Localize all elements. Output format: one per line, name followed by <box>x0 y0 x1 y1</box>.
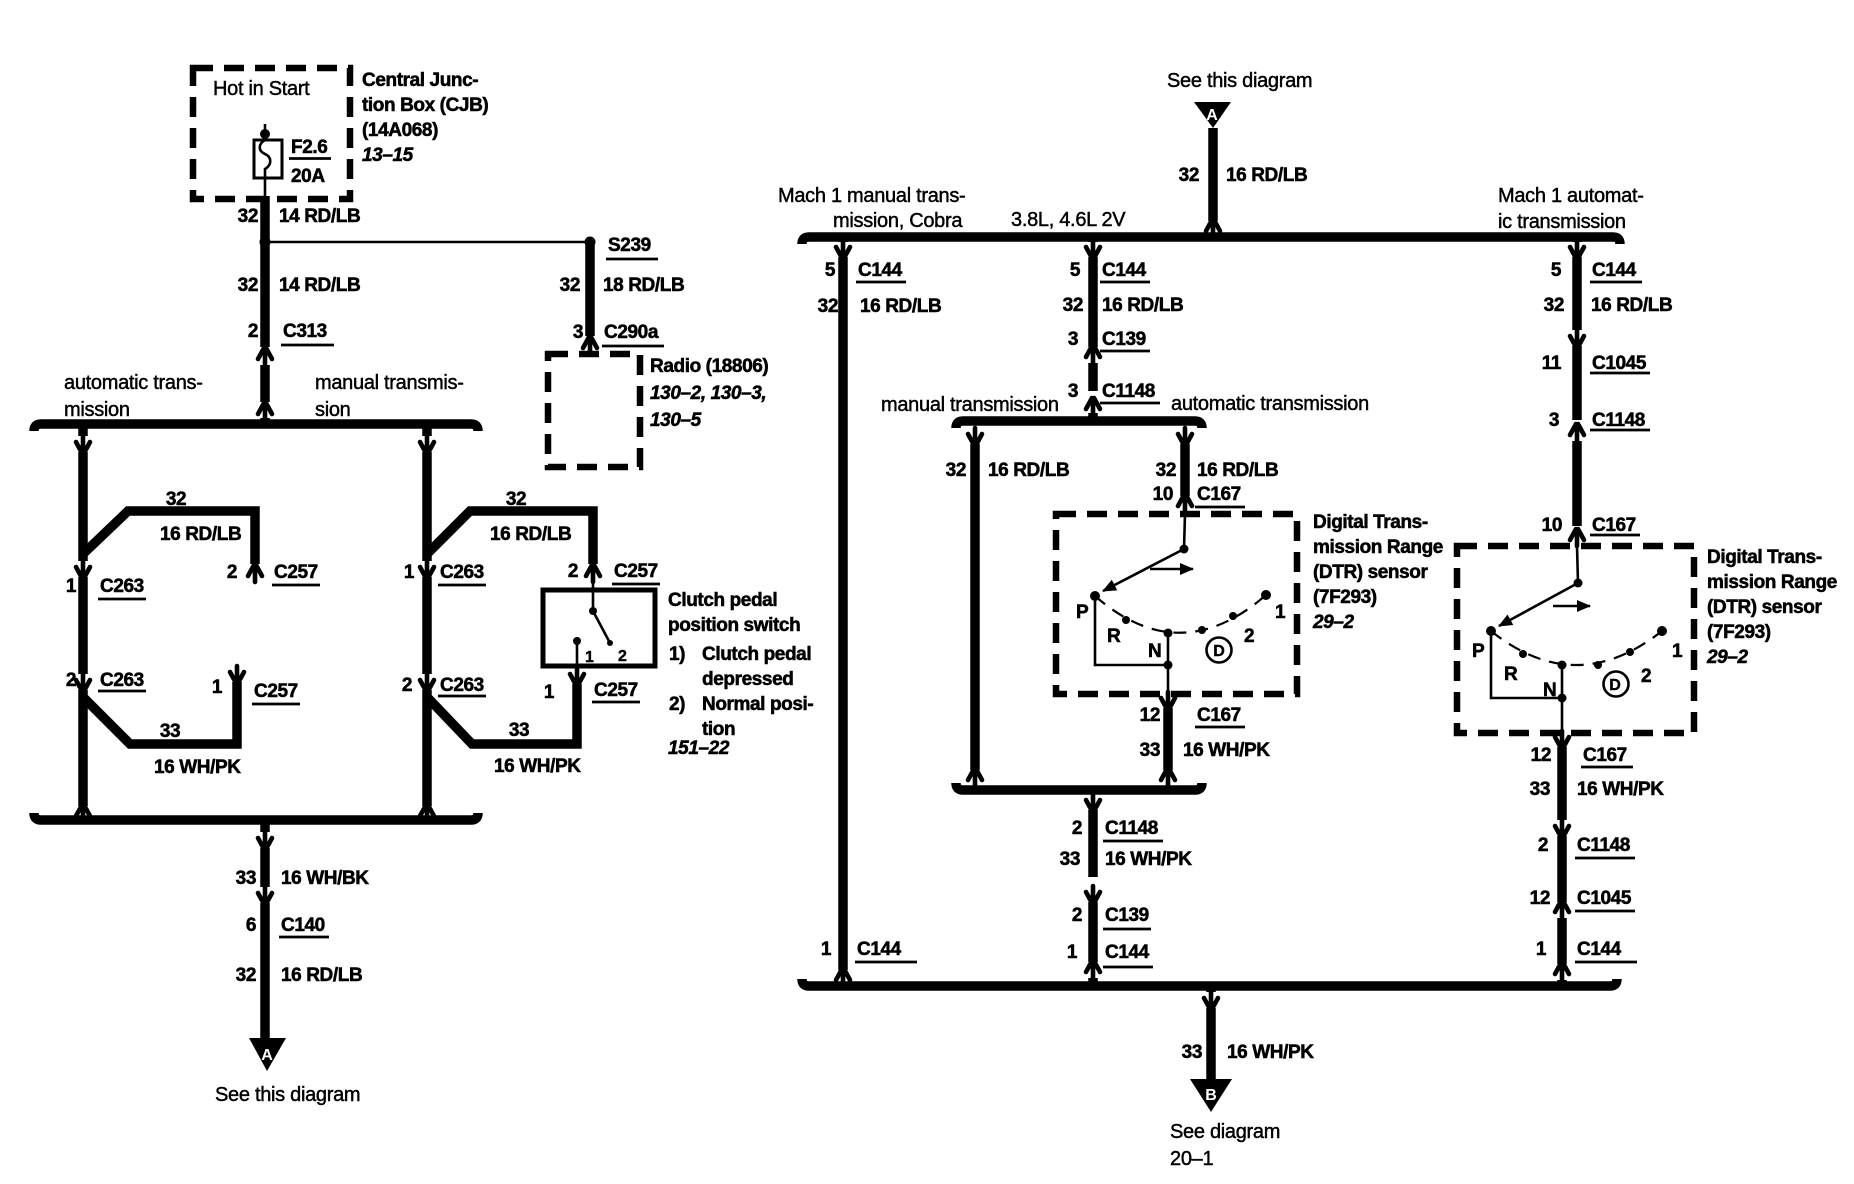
label 32 <box>818 296 838 317</box>
bus upper right <box>802 237 1620 244</box>
svg-text:P: P <box>1076 602 1089 623</box>
connector C257 label <box>252 681 300 704</box>
svg-text:33: 33 <box>1140 740 1160 761</box>
svg-text:P: P <box>1472 641 1485 662</box>
wire 33 16 WH/PK jog <box>84 682 237 744</box>
svg-text:Clutch pedal: Clutch pedal <box>668 590 777 611</box>
svg-text:1: 1 <box>1067 942 1078 963</box>
svg-text:3.8L, 4.6L 2V: 3.8L, 4.6L 2V <box>1011 209 1126 231</box>
svg-text:2: 2 <box>1072 905 1082 926</box>
svg-text:5: 5 <box>825 260 836 281</box>
sub bus lower <box>956 783 1202 790</box>
wire 33 16 WH/BK <box>260 848 270 887</box>
label 16 RD/LB <box>1226 165 1307 186</box>
label 32 <box>560 275 580 296</box>
connector C257 label <box>612 561 660 584</box>
clutch pedal position switch box <box>543 590 655 666</box>
connector <box>1161 769 1175 786</box>
connector 3 C139 <box>1086 346 1100 363</box>
connector C263 label <box>438 562 486 585</box>
wire <box>1557 918 1567 964</box>
pin 1 <box>1536 939 1547 960</box>
wire stub <box>1557 980 1567 986</box>
svg-text:C144: C144 <box>1102 260 1147 281</box>
svg-text:depressed: depressed <box>702 669 793 690</box>
label 16 RD/LB <box>1197 460 1278 481</box>
svg-text:A: A <box>1206 107 1218 124</box>
label Mach 1 manual transmission, Cobra <box>778 185 965 232</box>
wire 33 16 WH/PK <box>1206 1008 1216 1082</box>
svg-text:C139: C139 <box>1102 329 1146 350</box>
svg-text:C263: C263 <box>440 675 484 696</box>
label 32 <box>238 206 258 227</box>
svg-text:1: 1 <box>66 576 77 597</box>
label 16 RD/LB <box>160 524 241 545</box>
wire Mach 1 manual branch <box>838 257 848 970</box>
label 16 RD/LB <box>988 460 1069 481</box>
svg-text:16 RD/LB: 16 RD/LB <box>490 524 571 545</box>
wire 32 16 RD/LB jog <box>427 511 593 564</box>
pin 2 <box>1538 835 1548 856</box>
wire 32 16 RD/LB from arrow A <box>1208 128 1218 221</box>
label 14 RD/LB <box>279 206 360 227</box>
svg-text:2: 2 <box>1641 666 1651 687</box>
svg-text:2: 2 <box>618 648 627 665</box>
svg-text:R: R <box>1107 626 1121 647</box>
svg-text:32: 32 <box>946 460 966 481</box>
connector 1 C144 <box>1086 961 1100 978</box>
svg-text:Digital Trans-: Digital Trans- <box>1707 547 1822 568</box>
splice S239 dot <box>585 237 596 248</box>
svg-text:See diagram: See diagram <box>1170 1121 1280 1143</box>
svg-text:C144: C144 <box>858 260 903 281</box>
svg-text:C263: C263 <box>100 670 144 691</box>
pin 1 <box>544 682 555 703</box>
connector <box>968 428 982 445</box>
svg-text:1: 1 <box>585 649 594 666</box>
pin 3 <box>1068 381 1078 402</box>
bus lower left <box>34 813 478 820</box>
connector 2 C1148 <box>1555 820 1569 837</box>
svg-text:5: 5 <box>1070 260 1081 281</box>
svg-text:32: 32 <box>238 275 258 296</box>
bus lower right <box>802 979 1617 986</box>
label See diagram 20-1 <box>1170 1121 1280 1170</box>
svg-text:C257: C257 <box>254 681 298 702</box>
connector 5 C144 <box>1570 241 1584 258</box>
connector 10 C167 <box>1570 529 1584 546</box>
label S239 <box>606 235 658 259</box>
svg-text:C144: C144 <box>1105 942 1150 963</box>
svg-text:32: 32 <box>238 206 258 227</box>
connector C1045 label <box>1575 888 1635 911</box>
svg-text:10: 10 <box>1542 515 1562 536</box>
svg-text:2: 2 <box>248 321 258 342</box>
connector C1148 label <box>1590 410 1650 431</box>
svg-text:13–15: 13–15 <box>362 145 414 166</box>
svg-text:16 WH/PK: 16 WH/PK <box>1183 740 1270 761</box>
svg-text:manual transmis-: manual transmis- <box>315 372 464 394</box>
connector C144 label <box>1590 260 1642 282</box>
svg-text:33: 33 <box>236 868 256 889</box>
wire 32 14 RD/LB from fuse <box>260 196 270 347</box>
svg-text:ic transmission: ic transmission <box>1498 211 1626 233</box>
connector C313 <box>258 348 272 365</box>
label 33 <box>1140 740 1160 761</box>
svg-text:C167: C167 <box>1592 515 1636 536</box>
label Mach 1 automatic transmission <box>1498 185 1644 233</box>
label 33 <box>236 868 256 889</box>
off-page arrow A (left) <box>249 1038 286 1071</box>
wire <box>1572 346 1582 420</box>
svg-text:32: 32 <box>1156 460 1176 481</box>
connector C1148 label <box>1100 381 1160 403</box>
pin 1 <box>404 562 415 583</box>
svg-text:2: 2 <box>1538 835 1548 856</box>
svg-text:D: D <box>1609 677 1621 694</box>
sub bus upper <box>956 421 1202 428</box>
label 16 WH/PK <box>1105 849 1192 870</box>
svg-text:C167: C167 <box>1197 484 1241 505</box>
svg-text:Clutch pedal: Clutch pedal <box>702 644 811 665</box>
wire 32 16 RD/LB <box>260 903 270 1045</box>
label 32 <box>1179 165 1199 186</box>
svg-text:2): 2) <box>669 694 685 715</box>
label 32 <box>238 275 258 296</box>
switch contact 1 <box>573 637 581 668</box>
svg-text:D: D <box>1213 643 1225 660</box>
pin 2 <box>1072 818 1082 839</box>
wire below C313 <box>260 365 270 402</box>
pin 2 <box>227 562 237 583</box>
svg-text:Normal posi-: Normal posi- <box>702 694 813 715</box>
svg-text:16 WH/BK: 16 WH/BK <box>281 868 369 889</box>
connector 12 C1045 <box>1555 901 1569 918</box>
wire to splice S239 <box>265 241 590 244</box>
svg-text:16 WH/PK: 16 WH/PK <box>154 757 241 778</box>
Digital Transmission Range (DTR) sensor box 2 <box>1457 546 1694 733</box>
svg-text:mission Range: mission Range <box>1707 572 1837 593</box>
connector at bus <box>420 436 434 453</box>
connector 1 C263 <box>420 561 434 578</box>
svg-text:B: B <box>1205 1087 1217 1104</box>
svg-text:33: 33 <box>509 720 529 741</box>
wire stub <box>970 421 980 423</box>
svg-text:14 RD/LB: 14 RD/LB <box>279 206 360 227</box>
svg-text:C263: C263 <box>100 576 144 597</box>
label 16 RD/LB <box>1591 295 1672 316</box>
off-page arrow B <box>1190 1079 1232 1112</box>
connector 12 C167 <box>1161 692 1175 709</box>
junction node S239 tap <box>260 237 271 248</box>
svg-text:Digital Trans-: Digital Trans- <box>1313 512 1428 533</box>
connector <box>1178 428 1192 445</box>
svg-text:1: 1 <box>544 682 555 703</box>
svg-text:12: 12 <box>1140 705 1160 726</box>
svg-text:C1045: C1045 <box>1577 888 1632 909</box>
wire stub <box>1088 237 1098 242</box>
connector C144 label <box>1103 942 1153 967</box>
svg-text:3: 3 <box>1549 410 1559 431</box>
svg-text:automatic trans-: automatic trans- <box>64 372 203 394</box>
svg-text:C144: C144 <box>1577 939 1622 960</box>
svg-text:14 RD/LB: 14 RD/LB <box>279 275 360 296</box>
svg-text:sion: sion <box>315 399 351 421</box>
svg-text:16 RD/LB: 16 RD/LB <box>281 965 362 986</box>
pin 10 <box>1153 484 1173 505</box>
pin 12 <box>1140 705 1160 726</box>
label 32 <box>506 489 526 510</box>
pin 12 <box>1531 745 1551 766</box>
connector <box>968 769 982 786</box>
connector C167 label <box>1590 515 1640 536</box>
svg-text:(DTR) sensor: (DTR) sensor <box>1707 597 1822 618</box>
svg-text:C290a: C290a <box>604 322 659 343</box>
pin 1 <box>1067 942 1078 963</box>
svg-text:(7F293): (7F293) <box>1707 622 1771 643</box>
wire <box>1088 413 1098 421</box>
connector at lower bus <box>76 805 90 822</box>
svg-text:2: 2 <box>1244 626 1254 647</box>
svg-text:N: N <box>1543 680 1556 701</box>
wire stub to bus <box>260 418 270 424</box>
wire Mach 1 automatic branch <box>1572 257 1582 330</box>
connector 2 C139 <box>1086 886 1100 903</box>
Radio description text <box>650 356 768 431</box>
wire stub <box>260 820 270 832</box>
svg-text:Radio (18806): Radio (18806) <box>650 356 768 377</box>
wire <box>1088 257 1098 347</box>
label 16 WH/PK <box>1227 1042 1314 1063</box>
svg-text:tion Box (CJB): tion Box (CJB) <box>362 95 488 116</box>
label 14 RD/LB <box>279 275 360 296</box>
pin 11 <box>1542 353 1562 374</box>
pin 2 <box>66 670 76 691</box>
svg-text:position switch: position switch <box>668 615 800 636</box>
svg-text:1: 1 <box>821 939 832 960</box>
connector 1 C144 <box>836 969 850 986</box>
svg-text:16 RD/LB: 16 RD/LB <box>1591 295 1672 316</box>
connector C290a label <box>602 322 664 346</box>
wire <box>1572 441 1582 526</box>
connector 12 C167 <box>1555 731 1569 748</box>
svg-text:C257: C257 <box>594 680 638 701</box>
svg-text:See this diagram: See this diagram <box>215 1084 360 1106</box>
label 32 <box>946 460 966 481</box>
svg-text:(14A068): (14A068) <box>362 120 438 141</box>
svg-text:2: 2 <box>568 561 578 582</box>
label 16 RD/LB <box>281 965 362 986</box>
svg-text:C1148: C1148 <box>1592 410 1645 431</box>
svg-text:29–2: 29–2 <box>1706 647 1749 668</box>
svg-text:32: 32 <box>506 489 526 510</box>
label 16 RD/LB <box>490 524 571 545</box>
svg-text:automatic transmission: automatic transmission <box>1171 393 1369 415</box>
connector 2 C263 <box>420 674 434 691</box>
wire <box>1557 836 1567 902</box>
wire <box>422 690 432 806</box>
connector C144 label <box>1100 260 1150 282</box>
connector 1 C144 <box>1555 963 1569 980</box>
connector C263 label <box>438 675 486 696</box>
svg-text:20A: 20A <box>291 166 325 187</box>
svg-text:11: 11 <box>1542 353 1562 374</box>
CJB description text <box>362 70 488 166</box>
label automatic transmission <box>64 372 203 421</box>
wire automatic branch <box>78 452 88 561</box>
connector C313 label <box>281 321 334 345</box>
wire 32 18 RD/LB <box>585 242 595 336</box>
label 32 <box>236 965 256 986</box>
svg-text:C1045: C1045 <box>1592 353 1647 374</box>
connector 1 C257 <box>230 666 244 683</box>
DTR1 description <box>1312 512 1443 633</box>
label 16 WH/PK <box>1183 740 1270 761</box>
connector 2 C1148 <box>1086 794 1100 811</box>
svg-text:C1148: C1148 <box>1577 835 1630 856</box>
connector C140 label <box>279 915 329 937</box>
connector 2 C263 <box>76 674 90 691</box>
svg-text:C257: C257 <box>274 562 318 583</box>
svg-text:C257: C257 <box>614 561 658 582</box>
wire stub <box>1572 237 1582 242</box>
svg-text:mission, Cobra: mission, Cobra <box>833 210 963 232</box>
connector C144 label <box>856 260 906 282</box>
svg-text:C144: C144 <box>1592 260 1637 281</box>
connector below bus <box>1204 992 1218 1009</box>
Central Junction Box (CJB) dashed box <box>193 68 350 199</box>
wire 33 16 WH/PK jog <box>428 684 577 744</box>
svg-text:3: 3 <box>1068 381 1078 402</box>
connector 10 C167 <box>1178 495 1192 512</box>
svg-text:1: 1 <box>212 677 223 698</box>
connector C1148 label <box>1575 835 1635 858</box>
svg-text:S239: S239 <box>608 235 651 256</box>
connector 1 C263 <box>76 561 90 578</box>
wire stub <box>838 237 848 242</box>
svg-text:16 RD/LB: 16 RD/LB <box>860 296 941 317</box>
Radio dashed box <box>548 354 640 467</box>
label 16 WH/PK <box>494 756 581 777</box>
svg-text:32: 32 <box>1063 295 1083 316</box>
svg-text:12: 12 <box>1531 745 1551 766</box>
svg-text:32: 32 <box>166 489 186 510</box>
svg-text:R: R <box>1504 664 1518 685</box>
connector C139 label <box>1100 329 1150 351</box>
connector C257 label <box>272 562 320 585</box>
wire 33 16 WH/PK <box>1557 747 1567 820</box>
svg-text:C167: C167 <box>1197 705 1241 726</box>
connector C290a <box>583 337 597 354</box>
wire <box>422 577 432 674</box>
DTR2 rotary switch <box>1472 546 1683 733</box>
svg-text:16 RD/LB: 16 RD/LB <box>160 524 241 545</box>
pin 2 <box>248 321 258 342</box>
connector 11 C1045 <box>1570 330 1584 347</box>
label 16 WH/PK <box>1577 779 1664 800</box>
wire <box>1088 363 1098 391</box>
svg-text:mission Range: mission Range <box>1313 537 1443 558</box>
svg-text:33: 33 <box>1182 1042 1202 1063</box>
off-page arrow A (right) <box>1194 102 1231 128</box>
connector C257 label <box>592 680 640 702</box>
label 33 <box>1530 779 1550 800</box>
svg-text:2: 2 <box>66 670 76 691</box>
svg-text:16 WH/PK: 16 WH/PK <box>1577 779 1664 800</box>
connector 1 C257 <box>570 668 584 685</box>
svg-text:33: 33 <box>1060 849 1080 870</box>
connector C167 label <box>1195 705 1245 727</box>
svg-text:1: 1 <box>1536 939 1547 960</box>
svg-text:F2.6: F2.6 <box>291 137 327 158</box>
connector at bus <box>258 403 272 420</box>
svg-text:32: 32 <box>1544 295 1564 316</box>
svg-text:5: 5 <box>1551 260 1562 281</box>
connector C139 label <box>1103 905 1151 929</box>
svg-text:C1148: C1148 <box>1102 381 1155 402</box>
pin 5 <box>825 260 836 281</box>
svg-text:18 RD/LB: 18 RD/LB <box>603 275 684 296</box>
svg-text:32: 32 <box>818 296 838 317</box>
svg-text:(DTR) sensor: (DTR) sensor <box>1313 562 1428 583</box>
label manual transmission <box>315 372 464 421</box>
svg-text:130–2, 130–3,: 130–2, 130–3, <box>650 383 766 404</box>
svg-text:manual transmission: manual transmission <box>881 394 1059 416</box>
svg-text:1: 1 <box>1672 641 1683 662</box>
connector below bus <box>258 832 272 849</box>
connector 2 C257 <box>586 565 600 582</box>
svg-text:C139: C139 <box>1105 905 1149 926</box>
svg-text:2: 2 <box>402 675 412 696</box>
pin 5 <box>1070 260 1081 281</box>
connector at bus <box>76 436 90 453</box>
svg-text:See this diagram: See this diagram <box>1167 70 1312 92</box>
connector at lower bus <box>420 805 434 822</box>
DTR2 description <box>1706 547 1837 668</box>
svg-text:3: 3 <box>1068 329 1078 350</box>
pin 5 <box>1551 260 1562 281</box>
svg-text:29–2: 29–2 <box>1312 612 1355 633</box>
svg-text:3: 3 <box>573 322 583 343</box>
wire stub <box>1088 978 1098 986</box>
svg-text:C167: C167 <box>1583 745 1627 766</box>
svg-text:C1148: C1148 <box>1105 818 1158 839</box>
svg-text:2: 2 <box>1072 818 1082 839</box>
svg-text:130–5: 130–5 <box>650 410 702 431</box>
pin 12 <box>1530 888 1550 909</box>
pin 6 <box>246 915 256 936</box>
svg-text:C263: C263 <box>440 562 484 583</box>
pin 3 <box>1549 410 1559 431</box>
svg-text:(7F293): (7F293) <box>1313 587 1377 608</box>
svg-text:32: 32 <box>1179 165 1199 186</box>
svg-text:N: N <box>1148 641 1161 662</box>
wire <box>78 577 88 674</box>
wire 33 16 WH/PK <box>1088 810 1098 877</box>
svg-text:6: 6 <box>246 915 256 936</box>
wire <box>78 690 88 806</box>
connector C1148 label <box>1103 818 1163 841</box>
svg-text:1: 1 <box>404 562 415 583</box>
label 32 <box>1156 460 1176 481</box>
label 18 RD/LB <box>603 275 684 296</box>
svg-text:tion: tion <box>702 719 735 740</box>
wire stub <box>1180 421 1190 423</box>
wire into switch <box>592 582 595 611</box>
wire stub <box>1206 986 1216 992</box>
svg-text:33: 33 <box>1530 779 1550 800</box>
label 33 <box>509 720 529 741</box>
